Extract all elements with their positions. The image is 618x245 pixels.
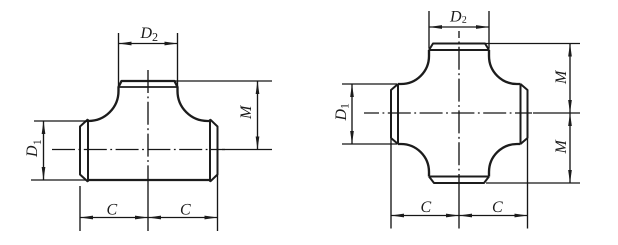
cross horizontal centerline [364, 112, 532, 114]
tee label C right [181, 204, 191, 215]
tee right end face and bevel [210, 119, 218, 181]
cross label M bottom [556, 139, 566, 153]
cross dimension D1 extension lines [342, 84, 397, 144]
cross top branch end cap [429, 44, 489, 51]
cross bottom branch end cap [429, 177, 489, 184]
tee dimension M extension lines [175, 81, 272, 150]
cross vertical centerline [458, 31, 460, 186]
tee horizontal centerline [52, 149, 225, 151]
cross label C left [421, 201, 431, 212]
cross dimension D2 extension lines [429, 11, 489, 49]
cross dimension M bottom line with arrows [569, 113, 571, 183]
cross dimension D2 line with arrows [429, 26, 489, 28]
cross dimension M top line with arrows [569, 44, 571, 114]
tee dimension D1 line with arrows [43, 121, 45, 180]
tee label M [241, 105, 251, 119]
cross body outline [398, 50, 521, 177]
cross dimension M extension lines [486, 44, 581, 184]
cross dimension D1 line with arrows [351, 84, 353, 144]
cross label M top [556, 70, 566, 84]
tee branch chamfer base line [119, 86, 178, 88]
tee label C left [107, 204, 117, 215]
cross right end face and bevel [521, 84, 528, 144]
cross label D1 [336, 104, 349, 121]
cross label D2 [450, 11, 461, 22]
tee label D2 [140, 28, 151, 39]
cross dimension C left line with arrows [391, 215, 459, 217]
cross label C right [493, 201, 503, 212]
tee label D1 [27, 140, 41, 157]
tee dimension D2 extension lines [119, 33, 178, 86]
cross dimension C extension lines [391, 139, 528, 229]
tee dimension D2 line with arrows [119, 43, 178, 45]
cross dimension C right line with arrows [459, 215, 528, 217]
tee left end face and bevel [80, 119, 88, 181]
tee dimension C right line with arrows [148, 217, 218, 219]
tee vertical centerline [147, 70, 149, 187]
tee body outline [87, 81, 211, 180]
cross left end face and bevel [391, 84, 398, 144]
tee dimension C extension lines [80, 175, 218, 231]
tee dimension D1 extension lines [31, 121, 88, 180]
tee dimension C left line with arrows [80, 217, 148, 219]
tee dimension M line with arrows [257, 81, 259, 150]
